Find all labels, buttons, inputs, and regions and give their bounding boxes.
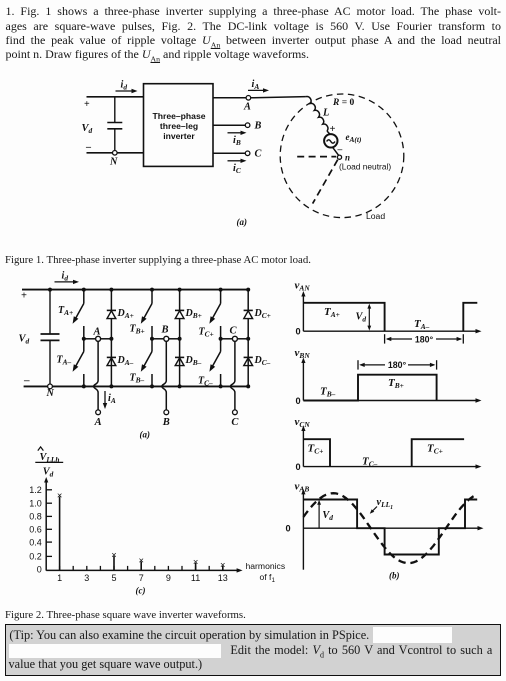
- svg-text:×: ×: [220, 559, 225, 570]
- node A (phase output): [96, 336, 101, 341]
- svg-text:TC–: TC–: [198, 376, 213, 388]
- svg-text:+: +: [21, 291, 27, 302]
- svg-text:C: C: [230, 326, 238, 337]
- wire: node A to output terminal (hops over minus rail): [94, 341, 99, 410]
- harmonics y-axis: [45, 481, 47, 571]
- svg-text:0: 0: [37, 565, 42, 575]
- 180deg dimension (vAN): [384, 334, 386, 343]
- vAN y-axis: [302, 295, 304, 331]
- svg-text:×: ×: [193, 556, 198, 567]
- svg-text:three–leg: three–leg: [160, 121, 198, 131]
- fundamental vLL1 dashed sine: [303, 493, 476, 563]
- svg-text:N: N: [46, 388, 55, 399]
- vCN y-axis: [302, 430, 304, 467]
- output terminal C: [233, 410, 238, 415]
- svg-text:DA+: DA+: [117, 308, 134, 320]
- svg-text:C: C: [255, 149, 262, 160]
- svg-text:180°: 180°: [415, 334, 434, 344]
- current iC arrow (fig a): [228, 160, 243, 162]
- svg-text:Vd: Vd: [356, 312, 367, 324]
- current iA arrow (fig a): [248, 89, 265, 91]
- node B (phase output): [164, 336, 169, 341]
- phase line B with node: [152, 338, 164, 340]
- svg-text:0.2: 0.2: [29, 552, 42, 562]
- svg-text:0: 0: [296, 396, 301, 406]
- feedback diode DB-: [175, 358, 184, 366]
- harmonics x ticks and labels: [59, 566, 61, 571]
- harmonic spike h=7: [140, 562, 142, 571]
- vCN x-axis: [303, 466, 476, 468]
- svg-text:iA: iA: [252, 79, 260, 91]
- svg-text:DA–: DA–: [117, 355, 134, 367]
- svg-text:TC+: TC+: [199, 327, 214, 339]
- svg-text:0.4: 0.4: [29, 537, 42, 547]
- vAB y-axis: [302, 493, 304, 570]
- svg-text:of f1: of f1: [260, 572, 276, 584]
- vAB stepped waveform trace: [303, 500, 477, 555]
- wire: phase B output: [213, 124, 245, 126]
- svg-text:TA–: TA–: [414, 318, 430, 331]
- svg-text:TA+: TA+: [58, 305, 73, 317]
- svg-text:vAB: vAB: [295, 481, 310, 494]
- whited-out area line 1: [373, 627, 452, 642]
- wire: node B to output terminal (hops over minus rail): [162, 341, 167, 410]
- node N (fig 2a): [48, 384, 53, 389]
- svg-text:Vd: Vd: [19, 334, 30, 346]
- svg-text:iB: iB: [233, 135, 241, 147]
- svg-text:–: –: [85, 142, 92, 153]
- label vLL1 with leader: [372, 507, 377, 512]
- svg-text:vBN: vBN: [295, 347, 311, 360]
- transistor TC+ (switch): [212, 290, 220, 319]
- vCN waveform trace: [303, 439, 464, 466]
- vAB x-axis: [303, 527, 478, 529]
- svg-text:0.8: 0.8: [29, 512, 42, 522]
- junction dots on rails leg C: [219, 288, 223, 292]
- current iA arrow (fig 2a output): [104, 391, 106, 404]
- svg-text:3: 3: [84, 573, 89, 583]
- svg-text:7: 7: [139, 573, 144, 583]
- output terminal A: [96, 410, 101, 415]
- vBN waveform trace: [303, 375, 436, 401]
- svg-text:–: –: [23, 375, 30, 387]
- svg-text:0: 0: [296, 327, 301, 337]
- feedback diode DA+: [110, 290, 112, 339]
- harmonics y ticks and labels: [46, 489, 52, 491]
- vBN x-axis: [303, 400, 476, 402]
- svg-text:Vd: Vd: [82, 123, 93, 135]
- svg-text:DB–: DB–: [185, 355, 202, 367]
- wire: DC minus rail to inverter box: [87, 152, 144, 154]
- wire: phase A output: [213, 97, 246, 99]
- svg-text:N: N: [109, 157, 118, 168]
- harmonic spike h=1: [59, 497, 61, 571]
- phase line A with node: [84, 338, 96, 340]
- DC minus rail: [24, 385, 249, 387]
- svg-text:+: +: [84, 99, 90, 110]
- transistor TB+ (switch): [144, 290, 152, 319]
- svg-text:TC+: TC+: [427, 443, 443, 456]
- svg-text:id: id: [121, 80, 128, 92]
- wire: node C to output terminal (hops over minus rail): [230, 341, 235, 410]
- svg-text:+: +: [330, 124, 336, 135]
- svg-text:13: 13: [218, 573, 228, 583]
- transistor TA- (switch): [76, 339, 84, 367]
- figure 2 caption: [5, 609, 246, 621]
- svg-text:L: L: [322, 108, 329, 119]
- svg-text:DB+: DB+: [185, 308, 202, 320]
- harmonic spike h=11: [195, 563, 197, 570]
- harmonics x-axis: [46, 569, 237, 571]
- svg-text:harmonics: harmonics: [246, 561, 286, 571]
- svg-text:(b): (b): [389, 570, 400, 580]
- svg-text:×: ×: [138, 555, 143, 566]
- junction dots on rails leg B: [150, 288, 154, 292]
- svg-text:Vd: Vd: [322, 510, 333, 522]
- svg-text:0.6: 0.6: [29, 525, 42, 535]
- svg-text:(a): (a): [140, 430, 151, 440]
- 180deg dimension (vBN): [357, 360, 359, 369]
- dashed phase-B branch line to node n: [297, 156, 336, 158]
- capacitor plates: [107, 123, 122, 129]
- harmonic spike h=13: [222, 566, 224, 570]
- svg-text:DC–: DC–: [254, 355, 271, 367]
- svg-text:×: ×: [111, 549, 116, 560]
- dashed phase-C branch line from node n: [313, 160, 338, 204]
- svg-text:TB–: TB–: [130, 373, 145, 385]
- svg-text:(Load neutral): (Load neutral): [339, 162, 391, 172]
- DC-link capacitor (fig 2a): [49, 290, 51, 334]
- problem statement paragraph: [6, 4, 502, 18]
- inductor L (load): [306, 97, 328, 131]
- svg-text:C: C: [231, 417, 239, 428]
- terminal C (fig a): [245, 151, 250, 156]
- transistor TB- (switch): [144, 339, 152, 367]
- wire: terminal A to load: [251, 97, 306, 98]
- node N (figure a): [113, 151, 118, 156]
- svg-text:vAN: vAN: [295, 280, 311, 293]
- feedback diode DA-: [107, 358, 116, 366]
- wire: DC plus rail to inverter box: [87, 96, 144, 98]
- svg-text:eA(t): eA(t): [346, 132, 362, 144]
- wire: source to node n: [333, 147, 339, 155]
- svg-text:A: A: [94, 417, 102, 428]
- svg-text:(c): (c): [136, 586, 146, 596]
- svg-text:DC+: DC+: [254, 308, 271, 320]
- transistor TC- (switch): [212, 339, 220, 367]
- svg-text:id: id: [62, 271, 69, 283]
- svg-text:5: 5: [111, 573, 116, 583]
- vBN y-axis: [302, 362, 304, 401]
- node C (phase output): [232, 336, 237, 341]
- load boundary dashed circle: [280, 94, 404, 218]
- figure 1 caption: [5, 254, 311, 266]
- inverter block U1: [144, 84, 214, 167]
- svg-text:TC+: TC+: [308, 443, 324, 456]
- terminal A (fig a): [246, 96, 251, 101]
- svg-text:TA+: TA+: [324, 306, 340, 319]
- svg-text:0: 0: [286, 524, 291, 534]
- capacitor (DC link) lead top: [114, 97, 116, 123]
- wire: phase C output: [213, 152, 245, 154]
- svg-text:B: B: [254, 121, 262, 132]
- svg-text:1.0: 1.0: [29, 498, 42, 508]
- svg-text:iA: iA: [108, 393, 116, 405]
- svg-text:180°: 180°: [388, 360, 407, 370]
- svg-text:A: A: [93, 327, 101, 338]
- transistor TA+ (switch): [76, 290, 84, 319]
- output terminal B: [164, 410, 169, 415]
- wire: inductor to AC source: [327, 131, 330, 134]
- svg-text:9: 9: [166, 573, 171, 583]
- svg-text:vCN: vCN: [295, 416, 311, 429]
- svg-text:0: 0: [296, 462, 301, 472]
- current id arrow (fig 2a): [55, 281, 75, 283]
- svg-text:A: A: [243, 102, 251, 113]
- svg-text:11: 11: [191, 573, 200, 583]
- svg-text:vLL1: vLL1: [377, 497, 394, 511]
- svg-text:iC: iC: [233, 163, 241, 175]
- svg-text:–: –: [337, 145, 343, 155]
- svg-text:Vd: Vd: [43, 466, 54, 478]
- phase line C with node: [221, 338, 233, 340]
- feedback diode DB+: [179, 290, 181, 339]
- feedback diode DC-: [244, 358, 253, 366]
- svg-text:TB+: TB+: [130, 324, 145, 336]
- harmonic spike h=5: [113, 556, 115, 570]
- vAN waveform trace: [303, 303, 477, 331]
- svg-text:B: B: [161, 325, 169, 336]
- svg-text:Load: Load: [366, 211, 385, 221]
- svg-text:TA–: TA–: [57, 355, 72, 367]
- node n (load neutral): [337, 155, 341, 159]
- current iB arrow (fig a): [228, 132, 243, 134]
- svg-text:1: 1: [57, 573, 62, 583]
- svg-text:R = 0: R = 0: [332, 98, 355, 108]
- vAN x-axis: [303, 330, 476, 332]
- feedback diode DC+: [247, 290, 249, 339]
- svg-text:×: ×: [57, 490, 62, 501]
- svg-text:TB–: TB–: [320, 386, 336, 399]
- terminal B (fig a): [245, 123, 250, 128]
- svg-text:1.2: 1.2: [29, 485, 42, 495]
- svg-text:(a): (a): [237, 217, 248, 227]
- tip box: [5, 624, 501, 676]
- AC source eA(t): [324, 134, 337, 147]
- svg-text:TC–: TC–: [362, 456, 378, 469]
- svg-text:inverter: inverter: [163, 131, 195, 141]
- whited-out area line 2: [9, 644, 221, 658]
- DC plus rail: [22, 289, 248, 291]
- svg-text:Three–phase: Three–phase: [152, 111, 205, 121]
- svg-text:TB+: TB+: [388, 377, 404, 390]
- capacitor lead bottom: [114, 129, 116, 153]
- current id arrow (fig a): [116, 90, 134, 92]
- svg-text:B: B: [162, 417, 170, 428]
- Vd arrow (vAB): [318, 504, 320, 529]
- junction dots on rails leg A: [82, 288, 86, 292]
